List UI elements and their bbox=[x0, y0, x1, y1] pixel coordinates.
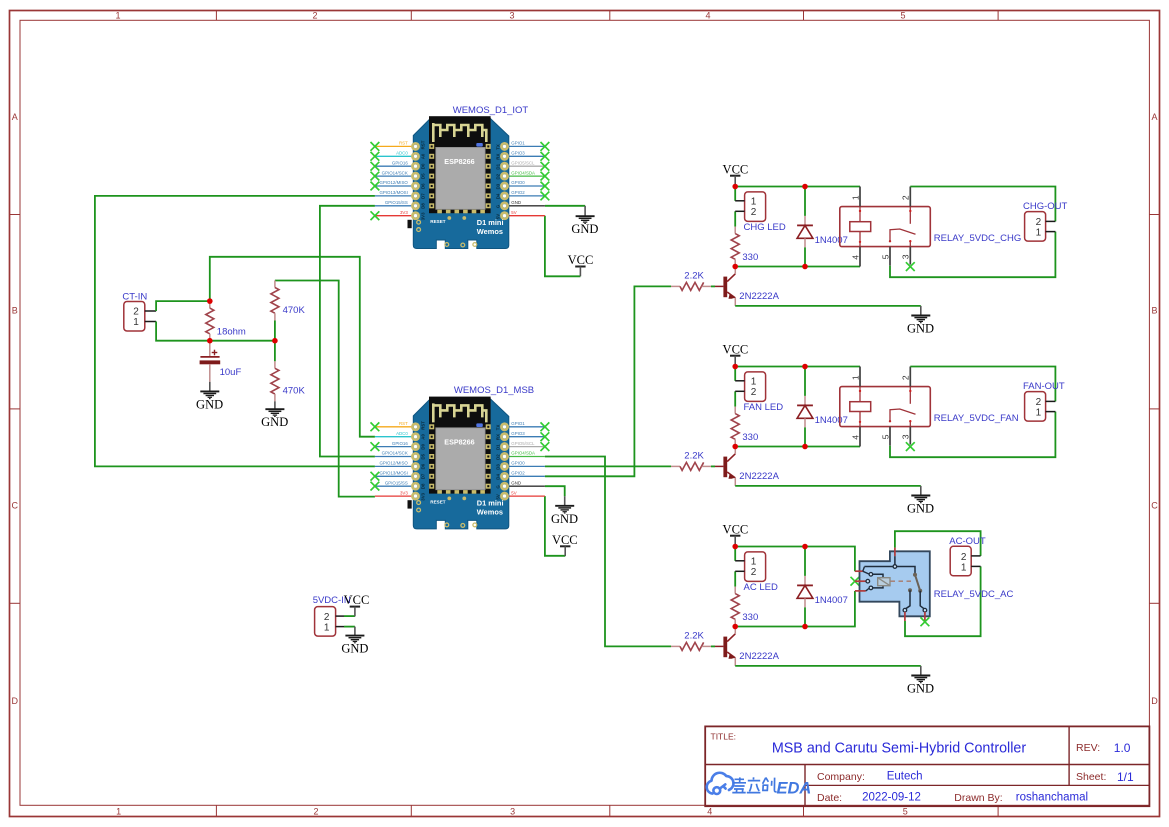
resistor R 470K lower bbox=[271, 361, 279, 401]
svg-text:WEMOS_D1_IOT: WEMOS_D1_IOT bbox=[453, 105, 529, 116]
title block box bbox=[705, 726, 1149, 806]
svg-text:Sheet:: Sheet: bbox=[1076, 771, 1106, 783]
svg-text:10uF: 10uF bbox=[220, 367, 242, 378]
svg-text:B: B bbox=[1151, 305, 1157, 315]
svg-text:2N2222A: 2N2222A bbox=[739, 471, 779, 482]
ground symbol CHG bbox=[920, 306, 922, 316]
svg-text:AC-OUT: AC-OUT bbox=[949, 536, 986, 547]
wire VCC rail CHG bbox=[735, 186, 860, 188]
ground symbol AC bbox=[920, 666, 922, 676]
VCC symbol FAN bbox=[730, 356, 740, 366]
relay RELAY_5VDC_FAN bbox=[840, 367, 931, 447]
frame column numbers top bbox=[115, 11, 905, 21]
svg-text:Date:: Date: bbox=[817, 792, 842, 804]
VCC symbol CHG bbox=[730, 176, 740, 186]
svg-text:5: 5 bbox=[903, 806, 908, 816]
resistor R 2.2K AC bbox=[671, 642, 711, 650]
relay AC top pin bbox=[894, 548, 896, 557]
resistor R 2.2K FAN bbox=[671, 462, 711, 470]
EDA logo CJK text (stylised) bbox=[732, 777, 776, 792]
svg-text:1N4007: 1N4007 bbox=[815, 415, 848, 426]
ground symbol 5VDC-IN bbox=[354, 627, 356, 636]
svg-text:GND: GND bbox=[196, 397, 223, 411]
svg-text:2: 2 bbox=[751, 387, 757, 398]
svg-text:1N4007: 1N4007 bbox=[815, 235, 848, 246]
frame column ticks bottom bbox=[216, 805, 998, 816]
svg-text:18ohm: 18ohm bbox=[217, 327, 246, 338]
diode D 1N4007 FAN bbox=[804, 367, 806, 396]
svg-text:1: 1 bbox=[324, 622, 330, 633]
svg-text:Drawn By:: Drawn By: bbox=[954, 792, 1002, 804]
svg-text:VCC: VCC bbox=[568, 253, 594, 267]
svg-text:RELAY_5VDC_AC: RELAY_5VDC_AC bbox=[934, 589, 1014, 600]
relay AC switch legs bbox=[906, 590, 910, 609]
wire emitter to GND AC bbox=[735, 665, 921, 667]
wire 5VDC-IN pin2 to VCC bbox=[344, 615, 355, 617]
resistor R 330 CHG bbox=[731, 227, 739, 267]
connector AC-OUT bbox=[950, 546, 971, 576]
svg-text:RELAY_5VDC_CHG: RELAY_5VDC_CHG bbox=[934, 233, 1021, 244]
svg-text:4: 4 bbox=[705, 11, 710, 21]
wire AC-OUT pin2 to relay top bbox=[895, 531, 981, 556]
frame row ticks right bbox=[1149, 215, 1159, 604]
svg-text:2: 2 bbox=[313, 806, 318, 816]
no-connect flags U1 left bbox=[371, 142, 380, 151]
svg-text:2: 2 bbox=[1036, 397, 1042, 408]
wire U1-GPIO15/SS to U2-GPIO14/SCK bbox=[320, 206, 375, 457]
wire emitter to GND FAN bbox=[735, 485, 921, 487]
svg-text:2: 2 bbox=[961, 552, 967, 563]
svg-text:2: 2 bbox=[1036, 217, 1042, 228]
connector 5VDC-IN bbox=[315, 607, 336, 637]
svg-text:2: 2 bbox=[324, 612, 330, 623]
wire AC-OUT pin1 to relay common bbox=[905, 566, 981, 636]
wire U2-GPIO2 to CHG driver bbox=[545, 286, 671, 476]
relay AC dashed link bbox=[891, 580, 914, 582]
wire header drop CHG bbox=[734, 187, 736, 201]
svg-text:GND: GND bbox=[551, 512, 578, 526]
svg-text:VCC: VCC bbox=[552, 533, 578, 547]
svg-text:1: 1 bbox=[133, 317, 139, 328]
svg-text:2.2K: 2.2K bbox=[684, 451, 704, 462]
resistor R 2.2K CHG bbox=[671, 282, 711, 290]
VCC symbol U2 bbox=[560, 546, 570, 556]
wire U2 5V to VCC bbox=[545, 496, 565, 556]
wire 5VDC-IN pin1 to GND bbox=[344, 626, 355, 628]
diode D 1N4007 AC bbox=[804, 547, 806, 576]
svg-text:WEMOS_D1_MSB: WEMOS_D1_MSB bbox=[454, 385, 534, 396]
svg-text:1/1: 1/1 bbox=[1117, 770, 1134, 784]
no-connect flag relay pin3 FAN bbox=[906, 442, 915, 451]
svg-text:GND: GND bbox=[907, 502, 934, 516]
VCC symbol 5VDC-IN bbox=[350, 607, 360, 617]
svg-text:1.0: 1.0 bbox=[1114, 741, 1131, 755]
svg-text:2N2222A: 2N2222A bbox=[739, 651, 779, 662]
connector CT-IN bbox=[124, 302, 145, 332]
transistor Q 2N2222A AC bbox=[715, 627, 735, 666]
relay AC internal common bar bbox=[864, 566, 893, 568]
ground symbol 470K bbox=[274, 401, 276, 409]
svg-text:1: 1 bbox=[751, 377, 757, 388]
svg-text:1: 1 bbox=[116, 806, 121, 816]
no-connect flags U2 left bbox=[371, 422, 380, 431]
wire VCC rail AC bbox=[735, 547, 855, 572]
diode D 1N4007 CHG bbox=[804, 187, 806, 216]
ground symbol U2 bbox=[564, 496, 566, 506]
frame row letters left bbox=[11, 112, 18, 706]
wire relay pin2 to CHG-OUT bbox=[910, 187, 1055, 222]
svg-text:EDA: EDA bbox=[777, 779, 812, 797]
svg-text:1: 1 bbox=[751, 557, 757, 568]
svg-text:2: 2 bbox=[751, 567, 757, 578]
svg-text:GND: GND bbox=[261, 415, 288, 429]
junction dots CT circuit bbox=[207, 298, 213, 304]
frame row letters right bbox=[1151, 112, 1158, 706]
svg-text:330: 330 bbox=[742, 612, 758, 623]
relay AC coil pin mid-left bbox=[855, 580, 866, 582]
resistor R 330 AC bbox=[731, 587, 739, 627]
svg-text:B: B bbox=[12, 305, 18, 315]
ground symbol U1 bbox=[584, 206, 586, 216]
ground symbol C1 bbox=[209, 382, 211, 392]
svg-text:1: 1 bbox=[1036, 408, 1042, 419]
wire lower rail AC bbox=[735, 591, 855, 627]
svg-text:FAN LED: FAN LED bbox=[744, 402, 784, 413]
connector FAN LED bbox=[745, 372, 766, 402]
wire CT-IN pin2 bbox=[156, 301, 210, 311]
svg-text:A: A bbox=[1151, 112, 1157, 122]
wire CT node to U2-A0 bbox=[210, 257, 375, 437]
svg-text:4: 4 bbox=[707, 806, 712, 816]
svg-text:1N4007: 1N4007 bbox=[815, 595, 848, 606]
no-connect flag relay AC NC pin bbox=[921, 617, 930, 626]
svg-text:2.2K: 2.2K bbox=[684, 271, 704, 282]
relay AC coil box bbox=[878, 578, 890, 586]
wire U1-GPIO13/MOSI to U2-GPIO12/MISO bbox=[95, 196, 375, 467]
svg-text:GND: GND bbox=[341, 642, 368, 656]
svg-text:C: C bbox=[11, 501, 18, 511]
svg-text:470K: 470K bbox=[283, 386, 306, 397]
frame column numbers bottom bbox=[116, 806, 908, 816]
wire U2-GPIO4/SDA to AC driver bbox=[545, 457, 671, 647]
svg-text:D: D bbox=[1151, 696, 1158, 706]
relay AC bottom pins bbox=[904, 612, 906, 621]
frame column ticks top bbox=[216, 11, 998, 21]
svg-text:VCC: VCC bbox=[723, 162, 749, 176]
svg-text:470K: 470K bbox=[283, 305, 306, 316]
EDA logo cloud bbox=[707, 773, 734, 794]
svg-text:Company:: Company: bbox=[817, 771, 865, 783]
svg-text:2: 2 bbox=[312, 11, 317, 21]
no-connect flags U2 right bbox=[541, 422, 550, 431]
svg-text:5: 5 bbox=[900, 11, 905, 21]
svg-text:D: D bbox=[11, 696, 18, 706]
relay RELAY_5VDC_CHG bbox=[840, 187, 931, 267]
junction dots FAN bbox=[732, 364, 738, 370]
svg-text:1: 1 bbox=[1036, 228, 1042, 239]
svg-text:VCC: VCC bbox=[344, 593, 370, 607]
wire relay pin5 to CHG-OUT bbox=[890, 232, 1055, 278]
wire U2 GND bbox=[545, 486, 565, 496]
relay AC coil pin bottom-left bbox=[855, 590, 866, 592]
svg-text:GND: GND bbox=[907, 682, 934, 696]
connector CHG-OUT bbox=[1025, 212, 1046, 242]
svg-text:C: C bbox=[1151, 501, 1158, 511]
svg-text:2N2222A: 2N2222A bbox=[739, 291, 779, 302]
relay AC switch arm bbox=[913, 573, 917, 577]
VCC symbol U1 bbox=[575, 267, 585, 277]
svg-text:FAN-OUT: FAN-OUT bbox=[1023, 381, 1065, 392]
junction dots CHG bbox=[732, 184, 738, 190]
svg-text:CT-IN: CT-IN bbox=[122, 291, 147, 302]
module U1 WEMOS_D1_IOT bbox=[375, 116, 545, 248]
connector CHG LED bbox=[745, 192, 766, 222]
svg-text:GND: GND bbox=[571, 222, 598, 236]
svg-text:VCC: VCC bbox=[723, 522, 749, 536]
capacitor C1 10uF bbox=[209, 341, 211, 357]
svg-text:3: 3 bbox=[509, 11, 514, 21]
resistor R 18ohm bbox=[206, 301, 214, 341]
svg-text:AC LED: AC LED bbox=[744, 582, 778, 593]
svg-text:REV:: REV: bbox=[1076, 742, 1100, 754]
svg-text:CHG-OUT: CHG-OUT bbox=[1023, 201, 1068, 212]
svg-text:1: 1 bbox=[961, 562, 967, 573]
junction dots AC bbox=[732, 544, 738, 550]
svg-text:RELAY_5VDC_FAN: RELAY_5VDC_FAN bbox=[934, 413, 1019, 424]
svg-text:2: 2 bbox=[133, 307, 139, 318]
svg-text:2: 2 bbox=[751, 207, 757, 218]
wire U2-GPIO0 to FAN driver bbox=[545, 465, 671, 467]
svg-text:CHG LED: CHG LED bbox=[744, 222, 786, 233]
wire emitter to GND CHG bbox=[735, 305, 921, 307]
svg-text:TITLE:: TITLE: bbox=[711, 732, 737, 742]
relay AC coil pin top-left bbox=[855, 570, 863, 572]
svg-text:1: 1 bbox=[115, 11, 120, 21]
wire relay pin2 to FAN-OUT bbox=[910, 367, 1055, 402]
wire U1 GND bbox=[545, 205, 585, 207]
wire U1 5V to VCC bbox=[545, 216, 581, 277]
wire VCC rail FAN bbox=[735, 366, 860, 368]
svg-text:1: 1 bbox=[751, 197, 757, 208]
transistor Q 2N2222A FAN bbox=[715, 447, 735, 486]
no-connect flags U1 right bbox=[541, 142, 550, 151]
wire CT-IN pin1 bbox=[156, 322, 275, 341]
wire header drop FAN bbox=[734, 367, 736, 381]
svg-text:3: 3 bbox=[510, 806, 515, 816]
frame row ticks left bbox=[10, 215, 21, 604]
svg-text:VCC: VCC bbox=[723, 342, 749, 356]
no-connect flag relay pin3 CHG bbox=[906, 262, 915, 271]
svg-text:330: 330 bbox=[742, 432, 758, 443]
wire relay pin5 to FAN-OUT bbox=[890, 412, 1055, 458]
connector FAN-OUT bbox=[1025, 392, 1046, 422]
wire lower rail FAN bbox=[735, 446, 860, 448]
svg-text:330: 330 bbox=[742, 252, 758, 263]
svg-text:A: A bbox=[12, 112, 18, 122]
resistor R 470K upper bbox=[271, 281, 279, 321]
VCC symbol AC bbox=[730, 536, 740, 546]
resistor R 330 FAN bbox=[731, 407, 739, 447]
ground symbol FAN bbox=[920, 486, 922, 496]
transistor Q 2N2222A CHG bbox=[715, 267, 735, 306]
no-connect flag relay coil mid AC bbox=[851, 577, 860, 586]
svg-text:Eutech: Eutech bbox=[887, 770, 923, 782]
wire header drop AC bbox=[734, 547, 736, 561]
relay RELAY_5VDC_AC bbox=[855, 548, 930, 622]
svg-text:2022-09-12: 2022-09-12 bbox=[862, 792, 921, 804]
connector AC LED bbox=[745, 552, 766, 582]
svg-text:roshanchamal: roshanchamal bbox=[1016, 792, 1088, 804]
svg-text:MSB and Carutu Semi-Hybrid Con: MSB and Carutu Semi-Hybrid Controller bbox=[772, 740, 1026, 756]
wire lower rail CHG bbox=[735, 266, 860, 268]
wire 470K junction bbox=[274, 321, 276, 341]
svg-text:2.2K: 2.2K bbox=[684, 631, 704, 642]
wire 470K top to U2-3V3 bbox=[275, 281, 375, 497]
module U2 WEMOS_D1_MSB bbox=[375, 397, 545, 529]
svg-text:GND: GND bbox=[907, 322, 934, 336]
